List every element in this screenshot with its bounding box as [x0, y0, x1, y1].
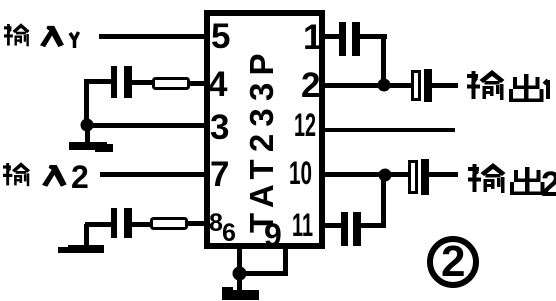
pin 10 label — [289, 155, 312, 191]
wire pin5 input1 — [99, 34, 207, 39]
svg-text:6: 6 — [222, 219, 236, 247]
net label 输入1 — [4, 23, 79, 48]
svg-text:TAT233P: TAT233P — [243, 46, 280, 233]
node D junction — [233, 267, 247, 281]
wire pin 1 lead — [322, 34, 341, 39]
wire C3 right lead — [360, 34, 387, 39]
svg-text:4: 4 — [208, 65, 228, 104]
wire C2 to R2 — [132, 222, 150, 227]
svg-text:11: 11 — [292, 207, 313, 243]
pin 11 label — [292, 207, 313, 243]
wire node A to ground — [85, 125, 90, 143]
wire C6 to output2 — [429, 172, 458, 177]
node C junction — [379, 169, 392, 182]
wire pin 9 down — [283, 246, 288, 276]
electrolytic capacitor C6 — [410, 159, 430, 195]
ground G1 — [69, 142, 113, 152]
pin 5 label — [211, 17, 230, 56]
svg-text:9: 9 — [264, 217, 282, 253]
ground G3 — [222, 287, 259, 300]
wire pin 10 to C6 — [322, 172, 408, 177]
wire pin 2 to C5 — [322, 83, 411, 88]
wire C2 down to ground — [84, 224, 89, 247]
svg-text:2: 2 — [441, 237, 465, 286]
wire R1 to pin 4 — [188, 81, 207, 86]
resistor R2 — [152, 219, 187, 229]
wire C4 right lead — [361, 223, 386, 228]
svg-text:5: 5 — [211, 17, 230, 56]
wire pin 9 to node D — [239, 271, 288, 276]
op-amp IC U1 TAT233P body — [207, 13, 322, 246]
svg-text:2: 2 — [541, 165, 556, 204]
pin 9 label — [264, 217, 282, 253]
capacitor C2 — [111, 208, 132, 238]
pin 2 label — [301, 66, 320, 105]
net label 输出1 — [467, 70, 548, 102]
pin 6 label — [222, 219, 236, 247]
wire pin7 input2 — [100, 172, 207, 177]
wire C1 to R1 — [132, 80, 152, 85]
svg-text:2: 2 — [301, 66, 320, 105]
capacitor C1 — [111, 66, 132, 98]
resistor R1 — [154, 79, 189, 89]
wire C3 down to node B — [381, 36, 386, 85]
svg-text:1: 1 — [303, 18, 322, 57]
svg-text:12: 12 — [294, 107, 316, 143]
wire pin 11 lead — [322, 223, 342, 228]
node B junction — [378, 79, 391, 92]
wire C5 to output1 — [432, 83, 458, 88]
IC U1 part label TAT233P — [243, 46, 280, 233]
wire R2 to pin 8 — [186, 221, 207, 226]
electrolytic capacitor C5 — [413, 69, 433, 102]
svg-text:2: 2 — [71, 159, 89, 195]
capacitor C3 — [339, 22, 360, 56]
svg-text:7: 7 — [210, 155, 229, 194]
wire pin 6 down — [237, 246, 242, 274]
svg-text:8: 8 — [209, 209, 223, 237]
wire pin 12 — [322, 128, 455, 132]
wire C2 left lead — [85, 222, 111, 227]
pin 4 label — [208, 65, 228, 104]
ground G2 — [58, 245, 104, 253]
pin 12 label — [294, 107, 316, 143]
wire C4 up to node C — [381, 175, 386, 228]
pin 3 label — [210, 108, 229, 147]
svg-text:3: 3 — [210, 108, 229, 147]
net label 输出2 — [468, 163, 556, 204]
capacitor C4 — [341, 212, 361, 246]
pin 1 label — [303, 18, 322, 57]
pin 7 label — [210, 155, 229, 194]
figure number 2 circled — [430, 237, 476, 286]
wire vertical C1 to node A — [84, 81, 89, 126]
wire node A to pin 3 — [85, 123, 207, 128]
net label 输入2 — [3, 159, 89, 195]
node A junction — [81, 119, 94, 132]
pin 8 label — [209, 209, 223, 237]
wire node D to ground — [237, 273, 242, 291]
svg-text:10: 10 — [289, 155, 312, 191]
wire C1 left lead — [84, 79, 112, 84]
